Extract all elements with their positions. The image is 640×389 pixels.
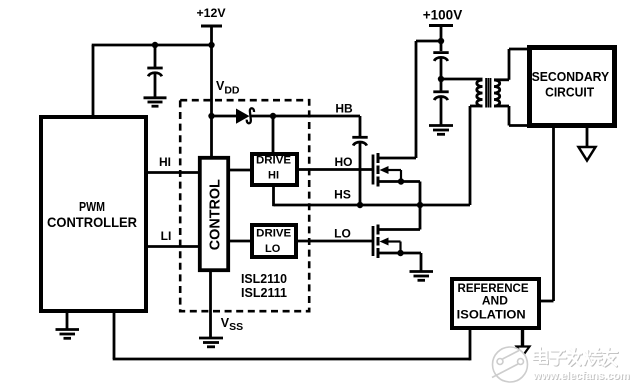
wire diode anode: [212, 115, 237, 118]
子: [551, 349, 564, 351]
svg-text:SECONDARY: SECONDARY: [532, 69, 610, 84]
wire +100V stem: [440, 26, 443, 52]
watermark logo: [492, 347, 528, 382]
svg-text:DRIVE: DRIVE: [256, 154, 291, 166]
svg-text:CONTROLLER: CONTROLLER: [47, 214, 137, 230]
wire VSS stub: [209, 270, 212, 337]
wire LO: [296, 240, 373, 243]
wire HI: [146, 171, 200, 174]
svg-text:HO: HO: [335, 155, 353, 169]
diode D1 schottky: [236, 108, 254, 123]
svg-text:CIRCUIT: CIRCUIT: [545, 85, 594, 100]
capacitor C2 top: [433, 53, 448, 92]
wire drive hi top stub: [272, 116, 275, 154]
transistor Q2 low-side MOSFET: [373, 205, 421, 271]
svg-text:CONTROL: CONTROL: [207, 179, 223, 250]
svg-text:ISOLATION: ISOLATION: [457, 308, 526, 322]
svg-text:AND: AND: [482, 294, 508, 308]
ground cap divider: [429, 126, 453, 135]
capacitor bootstrap CB: [352, 137, 367, 205]
node HS switch junction: [417, 202, 423, 208]
wire riser to reference box: [469, 330, 472, 360]
secondary circuit block: [530, 48, 615, 126]
svg-text:ISL2110: ISL2110: [241, 271, 287, 286]
ground arrow secondary: [579, 128, 596, 161]
transformer T1 core: [486, 78, 490, 108]
transformer T1 secondary winding: [494, 80, 500, 106]
svg-text:www.elecfans.com: www.elecfans.com: [532, 370, 630, 382]
reference and isolation block: [452, 279, 539, 328]
+12V supply label: [196, 6, 226, 20]
烧: [587, 351, 589, 357]
svg-text:PWM: PWM: [79, 199, 105, 214]
transistor Q1 high-side MOSFET: [373, 153, 420, 205]
control block: [200, 158, 228, 270]
drive lo block: [252, 225, 296, 257]
node label HI: [159, 155, 171, 169]
svg-text:DRIVE: DRIVE: [256, 228, 291, 240]
svg-text:LO: LO: [265, 243, 281, 255]
node HS bootstrap junction: [357, 202, 363, 208]
node label HO: [335, 155, 353, 169]
ground arrow reference: [517, 330, 530, 356]
capacitor bypass C1 stub: [154, 45, 157, 68]
IC boundary dashed box ISL2110/ISL2111: [180, 100, 309, 311]
label VDD: [216, 79, 240, 96]
电: [539, 348, 541, 362]
wire primary top lead: [441, 78, 483, 81]
svg-text:+100V: +100V: [423, 8, 462, 23]
wire control to drive hi: [230, 169, 252, 172]
ground PWM: [56, 330, 80, 339]
ground Q2 source: [410, 272, 434, 281]
PWM controller block: [41, 117, 146, 311]
node label HB: [335, 101, 353, 115]
watermark chinese text (drawn, embossed): [534, 348, 618, 366]
wire drive hi bottom stub: [272, 185, 275, 206]
wire HS: [274, 204, 471, 207]
svg-text:+12V: +12V: [196, 6, 226, 20]
ground PWM stub: [66, 313, 69, 329]
发: [570, 349, 573, 352]
label ISL2111: [241, 285, 287, 300]
烧: [586, 350, 588, 356]
wire HB: [252, 116, 361, 137]
wire secondary bottom lead: [494, 106, 529, 126]
发: [570, 349, 573, 352]
wire HO: [297, 168, 373, 171]
node bypass cap junction: [152, 42, 158, 48]
node label LI: [161, 229, 172, 243]
友: [603, 351, 617, 353]
wire primary bottom lead: [470, 106, 483, 205]
svg-text:ISL2111: ISL2111: [241, 285, 287, 300]
svg-text:HS: HS: [334, 188, 351, 202]
svg-text:LI: LI: [161, 229, 172, 243]
wire secondary top lead: [494, 49, 529, 80]
node VDD junction at diode: [208, 113, 214, 119]
wire control to drive lo: [230, 240, 252, 243]
svg-text:HI: HI: [268, 170, 279, 182]
+12V rail bar: [201, 25, 222, 28]
node +12V junction: [208, 42, 214, 48]
svg-text:HI: HI: [159, 155, 171, 169]
label ISL2110: [241, 271, 287, 286]
友: [604, 352, 618, 354]
wire secondary to reference: [541, 128, 554, 301]
svg-text:HB: HB: [335, 101, 353, 115]
wire feedback bottom: [113, 358, 470, 361]
node +100V junction: [438, 38, 444, 44]
ground bypass: [144, 98, 167, 106]
node label LO: [334, 227, 351, 241]
drive hi block: [252, 154, 297, 185]
capacitor C3 bottom: [433, 92, 448, 125]
+100V rail bar: [429, 24, 453, 27]
node HB junction: [270, 113, 276, 119]
wire VDD stem: [210, 26, 213, 156]
node cap midpoint junction: [438, 76, 444, 82]
transformer T1 primary winding: [477, 80, 483, 106]
capacitor bypass C1: [147, 68, 162, 97]
label VSS: [221, 316, 243, 333]
wire PWM bottom riser: [113, 313, 116, 359]
子: [552, 350, 565, 352]
电: [540, 348, 542, 362]
node label HS: [334, 188, 351, 202]
svg-text:LO: LO: [334, 227, 351, 241]
wire riser to PWM top: [92, 45, 95, 117]
wire LI: [146, 245, 200, 248]
+100V supply label: [423, 8, 462, 23]
wire +12V horizontal: [92, 44, 212, 47]
wire Q1 drain riser: [416, 41, 441, 158]
ground VSS: [199, 338, 223, 347]
